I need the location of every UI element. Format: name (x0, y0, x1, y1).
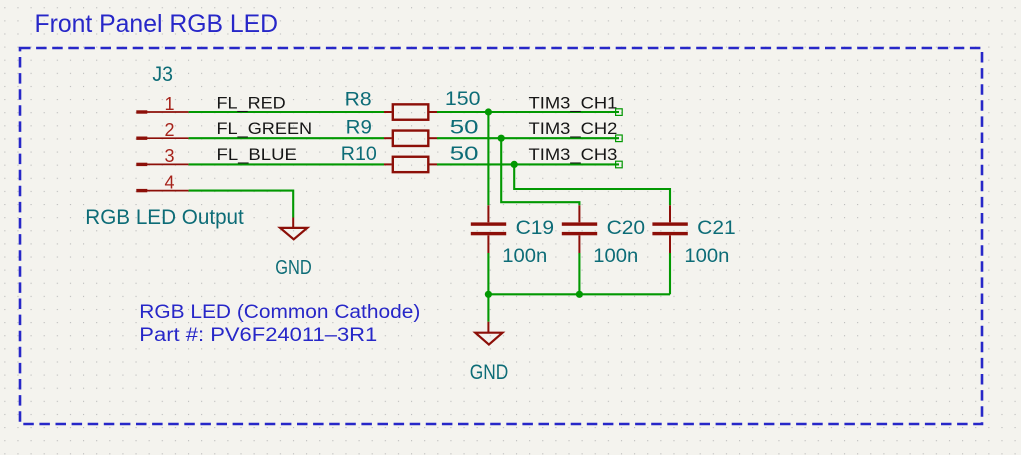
net label TIM3_CH1 (529, 93, 623, 115)
wire junction CH1 down to C19 (487, 112, 489, 205)
capacitor C20 (562, 205, 597, 253)
junction dot CH3 (511, 161, 518, 168)
wire C19 bottom to bus (487, 253, 489, 294)
wire C21 bottom to bus (669, 253, 671, 294)
svg-text:100n: 100n (684, 246, 729, 267)
wire junction CH3 down and over to C21 (514, 164, 670, 205)
svg-text:50: 50 (450, 144, 479, 165)
capacitor C21 (652, 205, 687, 253)
junction dot bus C19 (485, 291, 492, 298)
svg-text:FL_RED: FL_RED (217, 93, 286, 112)
power symbol GND (below capacitors) (475, 322, 502, 345)
J3 pin 4 (136, 189, 188, 192)
svg-text:TIM3_CH2: TIM3_CH2 (529, 119, 618, 138)
svg-text:GND: GND (470, 360, 509, 384)
wire C20 bottom to bus (578, 253, 580, 294)
sheet boundary dashed rectangle (20, 48, 982, 424)
svg-text:TIM3_CH1: TIM3_CH1 (529, 93, 618, 112)
wire bus down to GND (487, 294, 489, 321)
svg-text:R10: R10 (341, 143, 377, 165)
resistor R10 (384, 157, 437, 172)
wire R8 to TIM3_CH1 (437, 111, 619, 113)
J3 pin 1 (136, 110, 188, 113)
power symbol GND (J3 pin 4) (280, 218, 307, 240)
resistor R9 (384, 131, 437, 146)
net label TIM3_CH2 (529, 119, 623, 141)
wire pin2 to R9 (189, 137, 384, 139)
wire pin1 to R8 (189, 111, 384, 113)
svg-text:2: 2 (165, 120, 175, 140)
wire R9 to TIM3_CH2 (437, 137, 619, 139)
svg-text:RGB LED Output: RGB LED Output (85, 205, 244, 229)
svg-text:150: 150 (445, 89, 481, 110)
svg-text:100n: 100n (593, 246, 638, 267)
ground bus wire (488, 293, 670, 295)
svg-text:R8: R8 (345, 89, 372, 111)
junction dot bus C20 (576, 291, 583, 298)
svg-text:50: 50 (450, 117, 479, 138)
svg-text:100n: 100n (502, 246, 547, 267)
J3 pin 2 (136, 137, 188, 140)
wire R10 to TIM3_CH3 (437, 163, 619, 165)
junction dot CH2 (498, 135, 505, 142)
svg-text:FL_BLUE: FL_BLUE (217, 145, 297, 164)
wire pin4 to GND (189, 191, 294, 218)
svg-text:C21: C21 (697, 218, 736, 239)
svg-text:GND: GND (275, 256, 312, 279)
svg-text:J3: J3 (152, 63, 173, 86)
svg-text:Front Panel RGB LED: Front Panel RGB LED (35, 10, 279, 38)
svg-text:1: 1 (165, 94, 175, 114)
junction dot CH1 (485, 108, 492, 115)
wire pin3 to R10 (189, 163, 384, 165)
svg-text:3: 3 (165, 146, 175, 166)
svg-text:FL_GREEN: FL_GREEN (217, 119, 313, 138)
svg-text:TIM3_CH3: TIM3_CH3 (529, 145, 618, 164)
svg-text:R9: R9 (346, 117, 372, 139)
svg-text:RGB LED (Common Cathode): RGB LED (Common Cathode) (139, 302, 420, 323)
svg-text:Part #: PV6F24011–3R1: Part #: PV6F24011–3R1 (139, 325, 377, 346)
capacitor C19 (471, 205, 506, 253)
J3 pin 3 (136, 163, 188, 166)
svg-text:C20: C20 (607, 218, 646, 239)
wire junction CH2 down and over to C20 (501, 138, 579, 205)
svg-text:4: 4 (165, 172, 175, 192)
net label TIM3_CH3 (529, 145, 623, 168)
resistor R8 (384, 104, 437, 119)
svg-text:C19: C19 (516, 218, 555, 239)
